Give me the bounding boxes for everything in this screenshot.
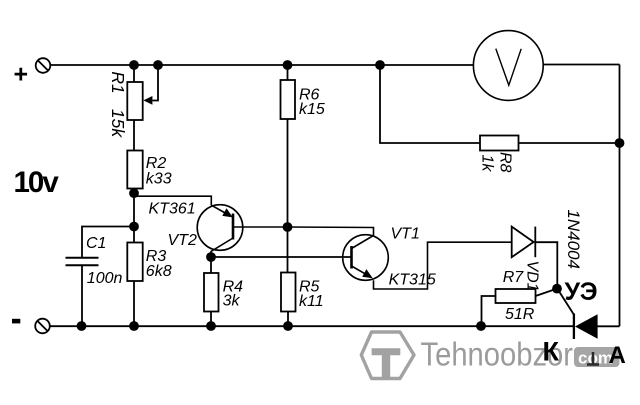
node C1 branch junction <box>129 222 139 232</box>
resistor R4 body <box>204 273 219 312</box>
transistor VT1 (NPN KT315) <box>288 227 512 289</box>
svg-text:15k: 15k <box>108 109 128 138</box>
resistor R7 body <box>496 289 536 303</box>
node top rail at R1 <box>129 60 139 70</box>
node R8 right at vertical wire <box>615 138 625 148</box>
svg-text:УЭ: УЭ <box>565 278 598 306</box>
label minus sign <box>12 319 20 324</box>
svg-text:C1: C1 <box>86 235 106 252</box>
wire VT1 emitter to diode VD1 anode <box>374 242 512 289</box>
node bottom rail at R4 <box>206 321 216 331</box>
resistor R1 body <box>127 82 142 120</box>
svg-text:100n: 100n <box>87 270 123 287</box>
svg-text:R1: R1 <box>108 71 128 93</box>
voltmeter V <box>473 31 543 101</box>
watermark logo hexagon with T <box>361 332 414 379</box>
svg-text:6k8: 6k8 <box>146 263 172 280</box>
watermark com badge <box>574 347 620 368</box>
wire VT2 collector to VT1 base <box>211 256 352 258</box>
VT2 collector line <box>211 238 233 257</box>
wire R8 left lead from top rail <box>380 65 480 143</box>
node top rail at wiper <box>153 60 163 70</box>
node top rail at R8 branch <box>375 60 385 70</box>
node VT2 collector <box>206 252 216 262</box>
thyristor cathode bar <box>573 314 575 340</box>
svg-text:К: К <box>543 337 560 367</box>
wire R7 left lead to bottom rail <box>482 296 496 326</box>
node top rail at R6 <box>283 60 293 70</box>
node bottom rail at C1 <box>77 321 87 331</box>
wire R3 bottom lead <box>133 281 135 326</box>
resistor R2 <box>127 151 142 243</box>
diode VD1 <box>512 227 558 289</box>
wire C1 top lead <box>82 227 134 258</box>
wire R6 top lead <box>287 65 289 80</box>
thyristor triangle <box>575 314 598 339</box>
resistor R8 <box>380 65 620 151</box>
wire voltmeter right lead <box>543 64 620 66</box>
VT2 emitter line <box>211 205 227 214</box>
terminal plus <box>36 58 51 73</box>
node R2-R3 junction to VT2 emitter <box>129 188 139 198</box>
svg-text:VT1: VT1 <box>391 226 420 243</box>
wire bottom supply rail <box>50 325 575 327</box>
thyristor under test <box>557 289 597 339</box>
svg-text:k33: k33 <box>146 170 172 187</box>
voltmeter V glyph <box>496 49 521 86</box>
wire R5 top lead <box>287 227 289 273</box>
terminal minus <box>35 319 50 334</box>
wire VT2 emitter from R2-R3 junction <box>135 196 212 205</box>
wire R5 bottom lead <box>287 312 289 327</box>
transistor VT2 (PNP KT361) <box>135 196 288 256</box>
svg-text:+: + <box>14 61 29 89</box>
capacitor C1 <box>66 227 135 327</box>
svg-text:3k: 3k <box>223 293 241 310</box>
resistor R3 body <box>127 243 142 282</box>
svg-text:VT2: VT2 <box>168 232 197 249</box>
VT2 circle <box>197 205 243 251</box>
node gate UE <box>552 284 562 294</box>
svg-text:1k: 1k <box>479 155 496 173</box>
resistor R8 body <box>480 136 519 151</box>
svg-text:R7: R7 <box>503 269 525 286</box>
wire R8 right lead <box>519 142 620 144</box>
resistor R6 body <box>281 80 296 119</box>
capacitor C1 top plate <box>66 257 99 259</box>
resistor R5 body <box>281 273 296 312</box>
wire thyristor anode to right vertical <box>598 325 620 327</box>
wiper arrowhead <box>143 96 152 105</box>
wire VD1 cathode to gate node <box>535 242 557 288</box>
svg-text:k15: k15 <box>299 101 325 118</box>
potentiometer wiper arrow of R1 <box>143 65 158 105</box>
VT1 emitter line <box>352 266 367 274</box>
resistor R7 <box>482 289 558 326</box>
wire R1 bottom lead <box>133 120 135 151</box>
svg-text:А: А <box>609 342 626 369</box>
capacitor C1 bottom plate <box>66 264 99 266</box>
node bottom rail at R5 <box>283 321 293 331</box>
wire top supply rail <box>51 64 474 66</box>
resistor R5 <box>281 227 296 326</box>
VD1 anode triangle <box>512 227 534 258</box>
resistor R6 <box>281 65 296 227</box>
wire right vertical to thyristor anode <box>619 65 621 327</box>
wire gate lead to thyristor cathode bar <box>557 289 574 315</box>
VT1 circle <box>343 235 389 281</box>
svg-text:R8: R8 <box>497 152 514 173</box>
svg-text:51R: 51R <box>505 306 535 323</box>
wire R6 bottom lead <box>287 119 289 227</box>
wire R4 bottom lead <box>210 312 212 327</box>
svg-text:KT361: KT361 <box>149 201 196 218</box>
svg-text:1N4004: 1N4004 <box>564 209 583 269</box>
svg-text:k11: k11 <box>299 293 324 310</box>
svg-text:VD1: VD1 <box>524 260 541 291</box>
wire C1 bottom lead <box>81 266 83 326</box>
resistor R1 (potentiometer) <box>127 65 142 151</box>
resistor R4 <box>204 257 219 326</box>
node R6-R5 junction with VT2 base <box>283 222 293 232</box>
wire R7 right lead to gate node <box>536 289 558 296</box>
VT1 emitter arrowhead <box>362 269 373 278</box>
node bottom rail at R7 <box>476 321 486 331</box>
VD1 cathode bar <box>534 227 536 258</box>
wire wiper from top rail <box>153 65 159 101</box>
voltmeter circle <box>473 31 543 101</box>
VT1 base bar <box>350 246 353 269</box>
wire R1 top lead <box>133 65 135 82</box>
wire R2 bottom lead down to R3 <box>133 189 135 243</box>
VT1 collector line and wire to R6-R5 junction <box>288 227 374 249</box>
wire R4 top lead <box>210 257 212 273</box>
VT2 base bar <box>232 214 235 240</box>
VT2 emitter arrowhead <box>222 208 233 217</box>
svg-text:KT315: KT315 <box>389 271 436 288</box>
resistor R3 <box>127 243 142 327</box>
resistor R2 body <box>127 151 142 189</box>
node bottom rail at R3 <box>129 321 139 331</box>
svg-text:10v: 10v <box>14 166 60 199</box>
wire VT2 base lead <box>233 226 288 228</box>
